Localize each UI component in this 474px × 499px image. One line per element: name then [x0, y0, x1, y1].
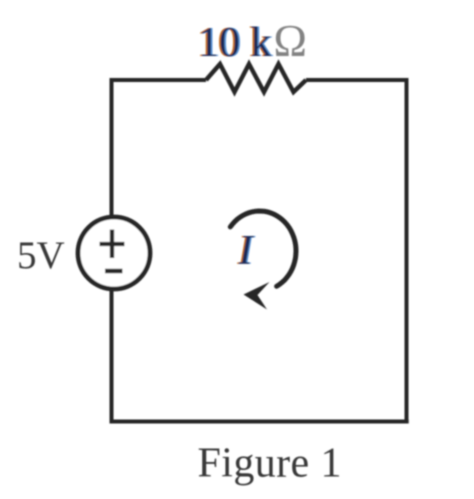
- resistor R1 zigzag: [206, 64, 306, 92]
- wire top-left segment: [112, 78, 207, 82]
- wire left lower segment: [110, 288, 114, 424]
- svg-text:10 k: 10 k: [198, 20, 272, 66]
- svg-text:I: I: [238, 228, 255, 274]
- label 10 k (resistor value): [196, 20, 273, 66]
- caption Figure 1: [198, 441, 342, 487]
- voltage source plus sign: [100, 230, 125, 259]
- wire right side: [405, 78, 409, 421]
- wire left upper segment: [110, 78, 114, 218]
- current loop arrowhead: [244, 282, 270, 310]
- label 5V: [17, 234, 65, 277]
- label I (loop current): [236, 228, 256, 274]
- svg-text:5V: 5V: [17, 234, 65, 277]
- voltage source V1 circle: [78, 217, 150, 289]
- wire top-right segment: [306, 78, 406, 82]
- voltage source minus sign: [105, 269, 123, 274]
- label ohm symbol: [274, 16, 307, 66]
- wire bottom: [112, 420, 409, 424]
- svg-text:Ω: Ω: [274, 16, 307, 66]
- current loop arc: [230, 211, 296, 286]
- svg-text:Figure 1: Figure 1: [198, 441, 342, 487]
